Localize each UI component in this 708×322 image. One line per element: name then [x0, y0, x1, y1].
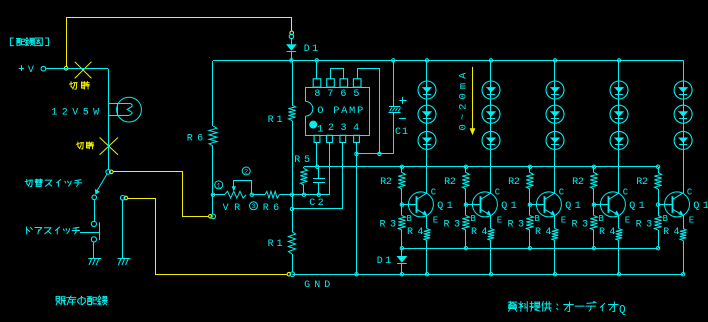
svg-text:G N D: G N D	[304, 280, 330, 291]
svg-text:V: V	[28, 65, 34, 76]
svg-text:R 4: R 4	[535, 227, 551, 238]
svg-text:B: B	[663, 214, 668, 224]
svg-text:8 7 6 5: 8 7 6 5	[314, 89, 359, 100]
svg-text:Q 1: Q 1	[565, 200, 581, 212]
svg-text:R 6: R 6	[263, 203, 279, 214]
svg-text:B: B	[471, 214, 476, 224]
svg-text:1: 1	[317, 124, 323, 135]
svg-text:C 1: C 1	[395, 127, 408, 138]
svg-text:R 4: R 4	[663, 227, 679, 238]
svg-text:Q 1: Q 1	[693, 200, 708, 212]
svg-text:R2: R2	[508, 177, 520, 188]
svg-text:B: B	[599, 214, 604, 224]
svg-text:1: 1	[217, 182, 221, 190]
svg-text:R2: R2	[380, 177, 392, 188]
svg-text:B: B	[407, 214, 412, 224]
svg-text:0~20mA: 0~20mA	[458, 72, 470, 131]
svg-text:R 3: R 3	[444, 220, 461, 231]
svg-text:R2: R2	[636, 177, 648, 188]
svg-text:R 4: R 4	[471, 227, 487, 238]
svg-text:R 1: R 1	[268, 239, 283, 250]
svg-text:R 6: R 6	[187, 134, 203, 145]
svg-text:E: E	[689, 215, 694, 225]
svg-text:C: C	[623, 187, 628, 197]
svg-text:O PAMP: O PAMP	[317, 105, 363, 117]
svg-text:Q 1: Q 1	[629, 200, 645, 212]
svg-text:E: E	[497, 215, 502, 225]
svg-text:Q 1: Q 1	[437, 200, 453, 212]
svg-text:C: C	[495, 187, 500, 197]
svg-text:2 3 4: 2 3 4	[328, 123, 359, 134]
svg-text:R 3: R 3	[380, 220, 397, 231]
svg-text:1 2 V 5 W: 1 2 V 5 W	[51, 107, 99, 118]
svg-text:Q 1: Q 1	[501, 200, 517, 212]
svg-text:B: B	[535, 214, 540, 224]
svg-text:Q: Q	[619, 304, 626, 316]
svg-text:E: E	[561, 215, 566, 225]
svg-text:E: E	[625, 215, 630, 225]
svg-text:R 4: R 4	[599, 227, 615, 238]
svg-text:C: C	[431, 187, 436, 197]
svg-text:2: 2	[244, 168, 248, 176]
svg-text:C: C	[559, 187, 564, 197]
svg-text:R 3: R 3	[572, 220, 589, 231]
svg-text:C 2: C 2	[309, 198, 324, 209]
svg-text:V R: V R	[223, 203, 241, 214]
svg-text:D 1: D 1	[304, 44, 318, 55]
svg-text:R 3: R 3	[636, 220, 653, 231]
svg-text:R2: R2	[444, 177, 456, 188]
svg-text:R2: R2	[572, 177, 584, 188]
svg-text:E: E	[433, 215, 438, 225]
svg-text:R 1: R 1	[268, 115, 283, 126]
svg-text:3: 3	[251, 203, 255, 211]
svg-text:D 1: D 1	[377, 256, 392, 267]
svg-text:C: C	[687, 187, 692, 197]
svg-text:R 5: R 5	[294, 155, 310, 166]
svg-text:R 3: R 3	[508, 220, 525, 231]
svg-text:R 4: R 4	[407, 227, 423, 238]
